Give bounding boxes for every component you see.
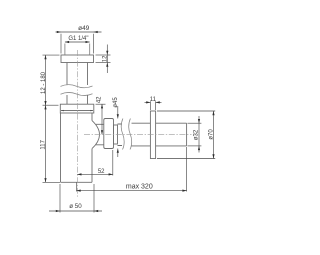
arrows o70 (inside): [212, 111, 214, 115]
vertical tailpipe tube lower section: [67, 95, 88, 104]
arrows o32 (outside): [198, 119, 200, 123]
horizontal outlet tube: [132, 123, 187, 146]
dim 117 bottom extension: [43, 181, 61, 183]
dim max320 line: [77, 190, 187, 192]
dim o32 line: [198, 116, 200, 153]
dim 12 extension lines: [96, 54, 111, 56]
svg-text:12 - 180: 12 - 180: [41, 71, 47, 94]
compression ring: [114, 125, 118, 144]
arrows 42 (inside): [101, 104, 103, 108]
dim 12-180 line: [45, 55, 47, 105]
arrows max320 (inside): [77, 190, 81, 192]
svg-text:ø 50: ø 50: [69, 203, 82, 210]
arrows o45 (outside): [117, 114, 119, 118]
dim o50 extensions: [59, 184, 61, 213]
arrows 12-180 (inside): [44, 55, 46, 59]
arrows 11 (outside): [146, 101, 150, 103]
dim 52 line: [77, 173, 113, 175]
cap (body top nut): [60, 104, 94, 113]
dim G1 line: [65, 41, 90, 43]
dim 12 line: [106, 45, 108, 74]
dim max320 right extension: [186, 147, 188, 192]
dim o70 extensions: [157, 110, 215, 112]
dim 12-180 extensions: [43, 54, 60, 56]
svg-text:G1 1/4": G1 1/4": [68, 36, 88, 42]
dim 52 extension: [112, 150, 114, 176]
svg-text:ø32: ø32: [194, 129, 200, 140]
dim 42 line: [101, 104, 103, 134]
svg-text:max 320: max 320: [126, 184, 153, 191]
arrows 117 (inside): [44, 105, 46, 109]
dim 11 line stubs: [145, 101, 151, 103]
svg-text:ø45: ø45: [113, 97, 119, 108]
dim o49 line: [56, 31, 102, 33]
flange (top mounting plate): [61, 55, 94, 63]
svg-text:52: 52: [98, 169, 105, 175]
arrows G1 (inside, pointing outward): [65, 41, 69, 43]
vertical tailpipe tube upper section: [67, 63, 88, 86]
svg-text:12: 12: [103, 55, 109, 62]
dim o70 line: [213, 111, 215, 159]
svg-text:ø49: ø49: [78, 25, 90, 32]
dim max320 left extension: [76, 183, 78, 192]
tube stubs before break: [118, 124, 123, 146]
svg-text:11: 11: [150, 97, 157, 103]
svg-text:117: 117: [41, 139, 47, 149]
thread extension lines G1 1/4: [65, 44, 90, 56]
arrows 52 (inside): [77, 173, 81, 175]
arrows o49 (outside, pointing inward): [57, 31, 61, 33]
dim o50 line: [49, 210, 102, 212]
wall flange (escutcheon): [150, 111, 155, 159]
horizontal centerline: [84, 133, 192, 135]
svg-text:ø70: ø70: [208, 129, 214, 140]
dim 11 extensions: [149, 101, 151, 110]
arrows o50 (outside): [56, 210, 60, 212]
break symbol upper tube: [61, 85, 93, 96]
body (bottle cylinder): [61, 113, 93, 182]
outlet stub pipe: [96, 124, 104, 145]
break symbol horizontal tube: [121, 119, 131, 150]
outlet ball bulge on body right: [92, 121, 100, 149]
vertical centerline: [76, 50, 78, 198]
dim o45 line stubs: [117, 106, 119, 119]
dim 117 line: [45, 105, 47, 182]
dim o32 extensions: [188, 122, 202, 124]
svg-text:42: 42: [97, 96, 103, 103]
dim 42 extension: [96, 103, 106, 105]
dim o49 extension lines: [60, 34, 62, 54]
arrows 12 (outside): [106, 51, 108, 55]
outlet nut: [104, 119, 114, 149]
cap inner dimension line with arrows: [61, 110, 93, 112]
